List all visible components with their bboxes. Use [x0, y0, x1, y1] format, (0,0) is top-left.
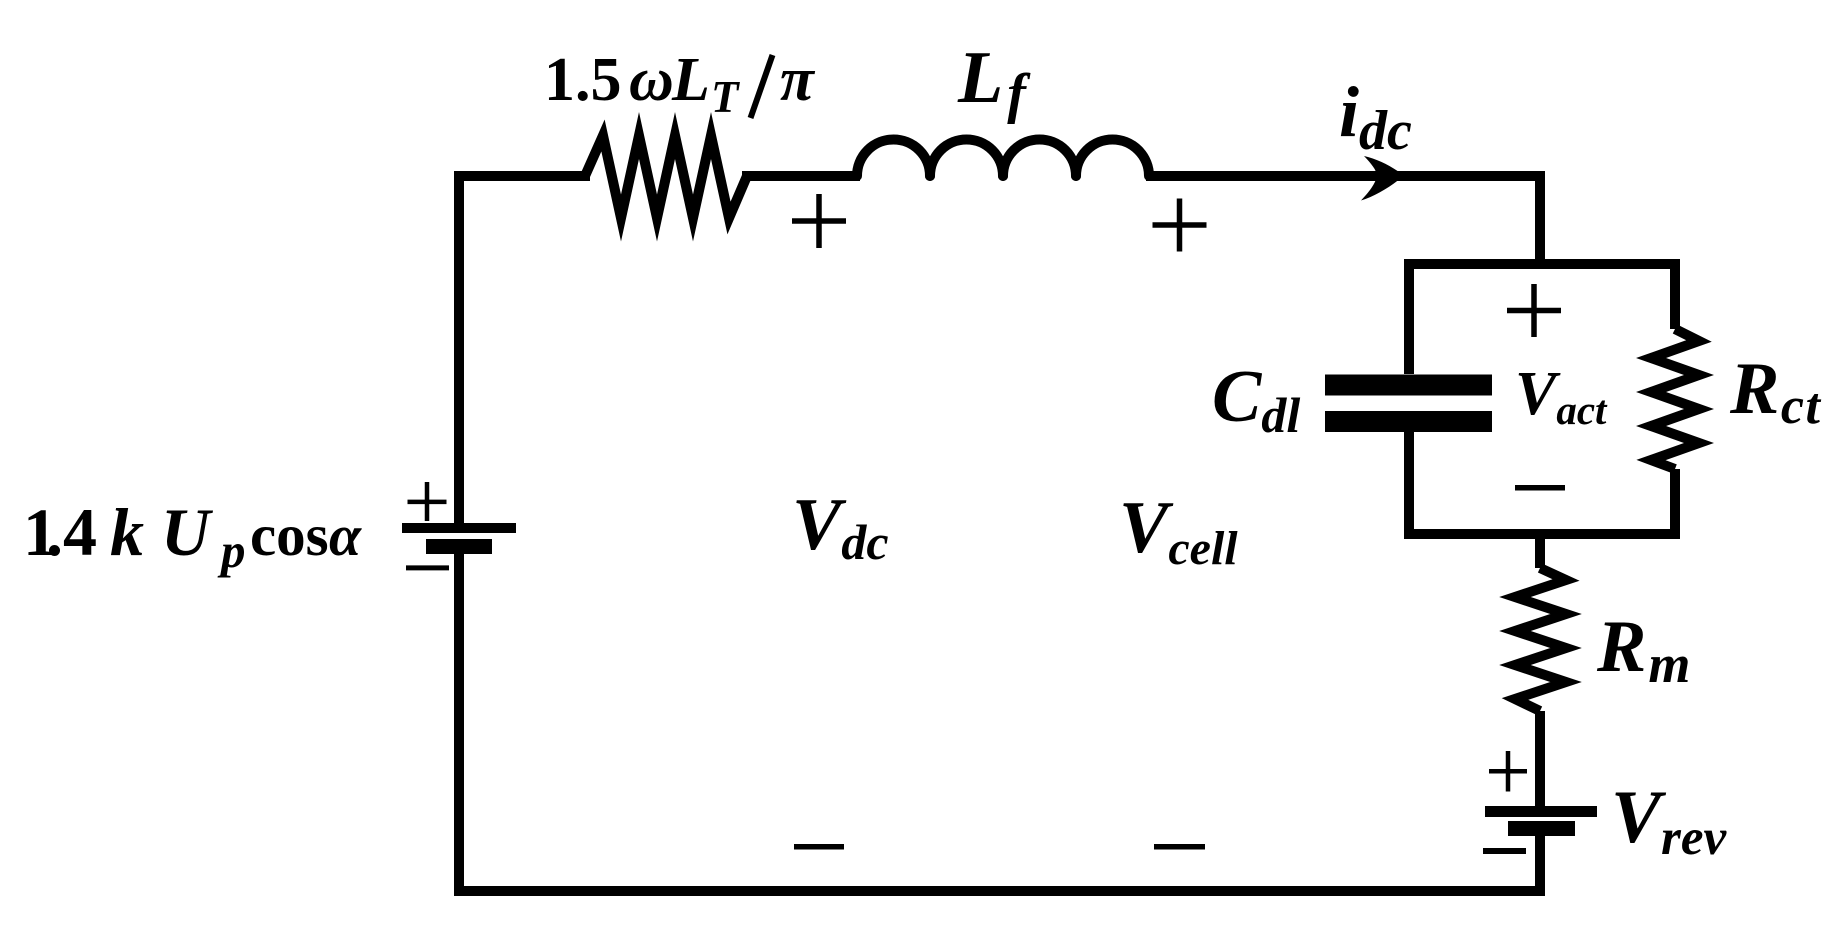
wire: resistor to inductor: [742, 171, 860, 181]
wire: inductor to top-right corner, down to node of parallel RC cell: [1146, 176, 1540, 264]
battery source 1.4kUp-cos-a long plate (+): [402, 523, 516, 533]
value label 1.5wLT/pi: slash stroke: [751, 55, 773, 118]
svg-text:Vact: Vact: [1515, 360, 1608, 433]
svg-text:Rct: Rct: [1729, 348, 1821, 435]
battery source 1.4kUp-cos-a short plate (-): [426, 539, 492, 554]
svg-text:Lf: Lf: [957, 37, 1031, 125]
plus sign of Vact: [1507, 284, 1561, 337]
svg-text:Cdl: Cdl: [1212, 356, 1300, 443]
wire: parallel-cell bottom rail joining Rct and Cdl branches: [1409, 432, 1675, 534]
battery Vrev long plate (+): [1485, 806, 1597, 817]
wire: Rm to battery Vrev: [1535, 711, 1545, 806]
wire: left branch from source + terminal up and right to resistor: [459, 176, 590, 523]
resistor R=1.5wLT/pi (commutation resistance) zigzag: [585, 136, 747, 219]
svg-text:Rm: Rm: [1596, 606, 1692, 694]
capacitor Cdl bottom plate: [1325, 411, 1492, 432]
svg-text:1.4kUpcosα: 1.4kUpcosα: [23, 494, 362, 578]
minus sign of source battery: [406, 565, 449, 570]
capacitor Cdl top plate: [1325, 375, 1492, 396]
plus sign of Vcell: [1153, 199, 1207, 252]
inductor Lf (filter inductor, 4 humps): [857, 139, 1149, 176]
resistor Rct (charge-transfer resistance) zigzag: [1651, 329, 1699, 469]
minus sign of Vact: [1515, 485, 1565, 491]
minus sign of Vcell: [1154, 844, 1205, 850]
plus sign of battery Vrev: [1489, 751, 1527, 792]
svg-text:Vdc: Vdc: [792, 484, 889, 570]
plus sign of Vdc: [792, 194, 846, 248]
wire: battery Vrev down, bottom return rail, up to source - terminal: [459, 552, 1540, 891]
svg-text:idc: idc: [1339, 72, 1412, 162]
plus sign of source battery: [408, 482, 447, 521]
svg-text:Vcell: Vcell: [1119, 487, 1238, 575]
svg-text:1.5ωLTπ: 1.5ωLTπ: [544, 46, 816, 122]
wire: parallel-cell top rail + left drop to Cdl and right drop to Rct: [1409, 264, 1675, 374]
battery Vrev short plate (-): [1508, 821, 1575, 836]
resistor Rm (membrane resistance) zigzag: [1515, 568, 1566, 711]
wire: parallel cell to Rm: [1535, 534, 1545, 568]
svg-text:Vrev: Vrev: [1611, 776, 1728, 866]
arrowhead of current idc on top wire: [1361, 156, 1404, 201]
minus sign of Vdc: [794, 844, 844, 850]
minus sign of battery Vrev: [1483, 848, 1526, 854]
